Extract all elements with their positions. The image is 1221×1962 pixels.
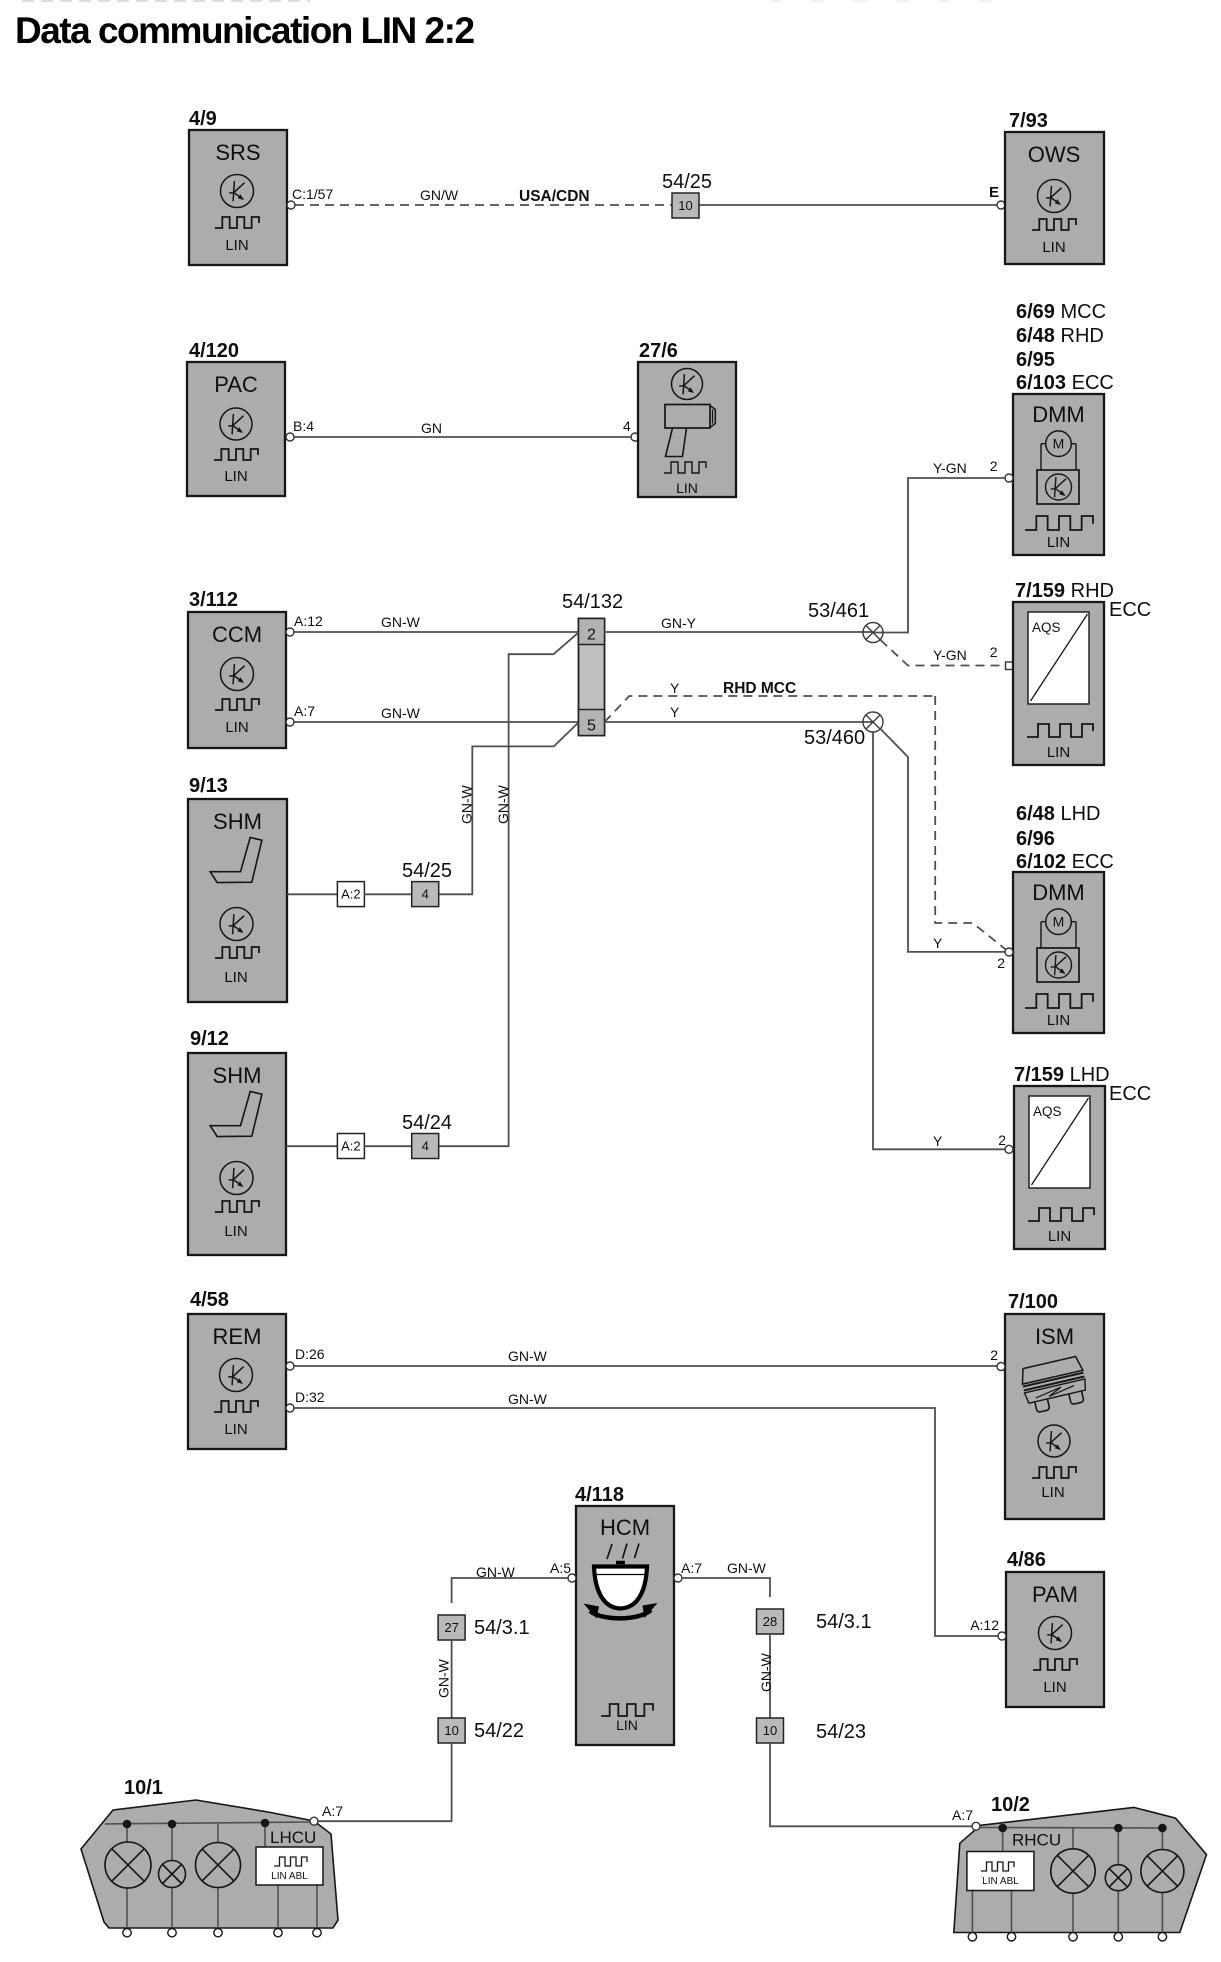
svg-text:54/3.1: 54/3.1 [474, 1617, 530, 1639]
svg-text:LIN: LIN [225, 719, 248, 736]
svg-text:10: 10 [678, 198, 692, 213]
svg-text:10/2: 10/2 [991, 1794, 1030, 1816]
svg-text:PAM: PAM [1032, 1582, 1078, 1607]
svg-text:LIN: LIN [225, 237, 248, 254]
svg-text:M: M [1053, 436, 1065, 452]
svg-text:2: 2 [998, 1132, 1006, 1148]
svg-text:LIN: LIN [616, 1717, 638, 1733]
svg-text:27/6: 27/6 [639, 340, 678, 362]
svg-text:4: 4 [422, 1139, 429, 1154]
svg-text:54/22: 54/22 [474, 1720, 524, 1742]
svg-text:5: 5 [587, 718, 596, 735]
svg-text:RHD MCC: RHD MCC [723, 680, 796, 697]
svg-text:A:12: A:12 [970, 1617, 999, 1633]
svg-text:6/95: 6/95 [1016, 349, 1055, 371]
svg-text:GN-W: GN-W [459, 784, 475, 824]
svg-text:OWS: OWS [1028, 142, 1081, 167]
svg-text:LIN: LIN [676, 480, 698, 496]
svg-text:DMM: DMM [1032, 880, 1085, 905]
svg-text:Y-GN: Y-GN [933, 647, 967, 663]
svg-text:GN-W: GN-W [436, 1658, 452, 1698]
svg-text:GN-W: GN-W [476, 1564, 516, 1580]
svg-text:PAC: PAC [214, 372, 258, 397]
svg-text:GN-W: GN-W [381, 614, 421, 630]
svg-text:USA/CDN: USA/CDN [519, 188, 590, 205]
svg-text:3/112: 3/112 [189, 589, 238, 611]
svg-text:7/159 LHD: 7/159 LHD [1014, 1064, 1110, 1086]
svg-text:54/23: 54/23 [816, 1721, 866, 1743]
svg-text:27: 27 [444, 1620, 458, 1635]
svg-text:GN-W: GN-W [508, 1348, 548, 1364]
svg-text:4/9: 4/9 [189, 108, 217, 130]
svg-text:6/102 ECC: 6/102 ECC [1016, 851, 1114, 873]
svg-text:LHCU: LHCU [270, 1828, 316, 1847]
svg-text:B:4: B:4 [293, 418, 314, 434]
svg-text:GN-W: GN-W [508, 1391, 548, 1407]
svg-text:6/48 RHD: 6/48 RHD [1016, 325, 1104, 347]
svg-text:LIN: LIN [1043, 1679, 1066, 1696]
svg-text:LIN: LIN [224, 1421, 247, 1438]
svg-text:Y: Y [933, 1133, 943, 1149]
svg-text:6/103 ECC: 6/103 ECC [1016, 372, 1114, 394]
svg-text:6/69 MCC: 6/69 MCC [1016, 301, 1106, 323]
svg-text:GN-W: GN-W [758, 1652, 774, 1692]
svg-text:AQS: AQS [1033, 1104, 1062, 1119]
svg-text:M: M [1053, 914, 1065, 930]
svg-text:7/100: 7/100 [1008, 1291, 1058, 1313]
svg-text:28: 28 [763, 1614, 777, 1629]
svg-text:4: 4 [623, 418, 631, 434]
svg-text:HCM: HCM [600, 1515, 650, 1540]
svg-text:A:7: A:7 [681, 1560, 702, 1576]
svg-text:A:2: A:2 [341, 1139, 361, 1154]
svg-text:A:5: A:5 [550, 1560, 571, 1576]
svg-text:2: 2 [990, 644, 998, 660]
svg-text:GN: GN [421, 420, 442, 436]
svg-text:10: 10 [763, 1723, 777, 1738]
svg-text:10: 10 [444, 1723, 458, 1738]
svg-text:SHM: SHM [213, 1063, 262, 1088]
svg-text:4/58: 4/58 [190, 1289, 229, 1311]
svg-text:54/25: 54/25 [662, 171, 712, 193]
svg-text:LIN: LIN [224, 468, 247, 485]
svg-text:CCM: CCM [212, 622, 262, 647]
svg-text:ECC: ECC [1109, 599, 1151, 621]
svg-text:LIN: LIN [1048, 1228, 1071, 1245]
svg-text:LIN ABL: LIN ABL [982, 1876, 1019, 1887]
svg-text:A:7: A:7 [952, 1807, 973, 1823]
svg-text:4/120: 4/120 [189, 340, 239, 362]
svg-text:LIN: LIN [224, 1223, 247, 1240]
svg-text:A:7: A:7 [294, 703, 315, 719]
svg-text:LIN: LIN [1042, 239, 1065, 256]
svg-text:2: 2 [587, 627, 596, 644]
svg-text:C:1/57: C:1/57 [292, 186, 333, 202]
svg-text:REM: REM [213, 1324, 262, 1349]
svg-text:ISM: ISM [1035, 1324, 1074, 1349]
svg-text:LIN: LIN [1041, 1484, 1064, 1501]
svg-text:LIN: LIN [224, 969, 247, 986]
svg-text:53/461: 53/461 [808, 600, 869, 622]
svg-text:GN-W: GN-W [381, 705, 421, 721]
svg-text:E: E [989, 184, 999, 201]
svg-text:9/13: 9/13 [189, 775, 228, 797]
svg-text:SHM: SHM [213, 809, 262, 834]
svg-text:54/132: 54/132 [562, 591, 623, 613]
svg-text:Y: Y [670, 704, 680, 720]
svg-text:7/159 RHD: 7/159 RHD [1015, 580, 1114, 602]
svg-text:2: 2 [990, 1347, 998, 1363]
svg-text:A:7: A:7 [322, 1803, 343, 1819]
svg-text:4/118: 4/118 [575, 1484, 624, 1506]
svg-text:LIN ABL: LIN ABL [271, 1871, 308, 1882]
svg-text:D:26: D:26 [295, 1346, 325, 1362]
svg-text:10/1: 10/1 [124, 1777, 163, 1799]
svg-text:Y: Y [933, 935, 943, 951]
svg-text:6/48 LHD: 6/48 LHD [1016, 803, 1101, 825]
svg-text:Data communication LIN 2:2: Data communication LIN 2:2 [15, 10, 474, 51]
svg-text:SRS: SRS [215, 140, 260, 165]
svg-text:GN-Y: GN-Y [661, 615, 697, 631]
svg-text:2: 2 [997, 955, 1005, 971]
svg-text:A:12: A:12 [294, 613, 323, 629]
svg-text:D:32: D:32 [295, 1389, 325, 1405]
svg-text:GN-W: GN-W [727, 1560, 767, 1576]
svg-text:Y: Y [670, 680, 680, 696]
svg-text:2: 2 [990, 458, 998, 474]
svg-text:54/25: 54/25 [402, 860, 452, 882]
svg-text:9/12: 9/12 [190, 1028, 229, 1050]
svg-text:7/93: 7/93 [1009, 110, 1048, 132]
svg-text:GN-W: GN-W [495, 784, 511, 824]
svg-text:ECC: ECC [1109, 1083, 1151, 1105]
svg-text:Y-GN: Y-GN [933, 460, 967, 476]
svg-text:A:2: A:2 [341, 887, 361, 902]
svg-text:AQS: AQS [1032, 620, 1061, 635]
svg-text:4/86: 4/86 [1007, 1549, 1046, 1571]
svg-text:GN/W: GN/W [420, 187, 459, 203]
svg-text:54/3.1: 54/3.1 [816, 1611, 872, 1633]
svg-text:LIN: LIN [1047, 1012, 1070, 1029]
svg-text:DMM: DMM [1032, 402, 1085, 427]
svg-text:6/96: 6/96 [1016, 828, 1055, 850]
svg-text:4: 4 [422, 887, 429, 902]
svg-text:54/24: 54/24 [402, 1112, 452, 1134]
svg-text:LIN: LIN [1047, 744, 1070, 761]
svg-text:LIN: LIN [1047, 534, 1070, 551]
svg-text:RHCU: RHCU [1012, 1831, 1061, 1850]
svg-text:53/460: 53/460 [804, 727, 865, 749]
